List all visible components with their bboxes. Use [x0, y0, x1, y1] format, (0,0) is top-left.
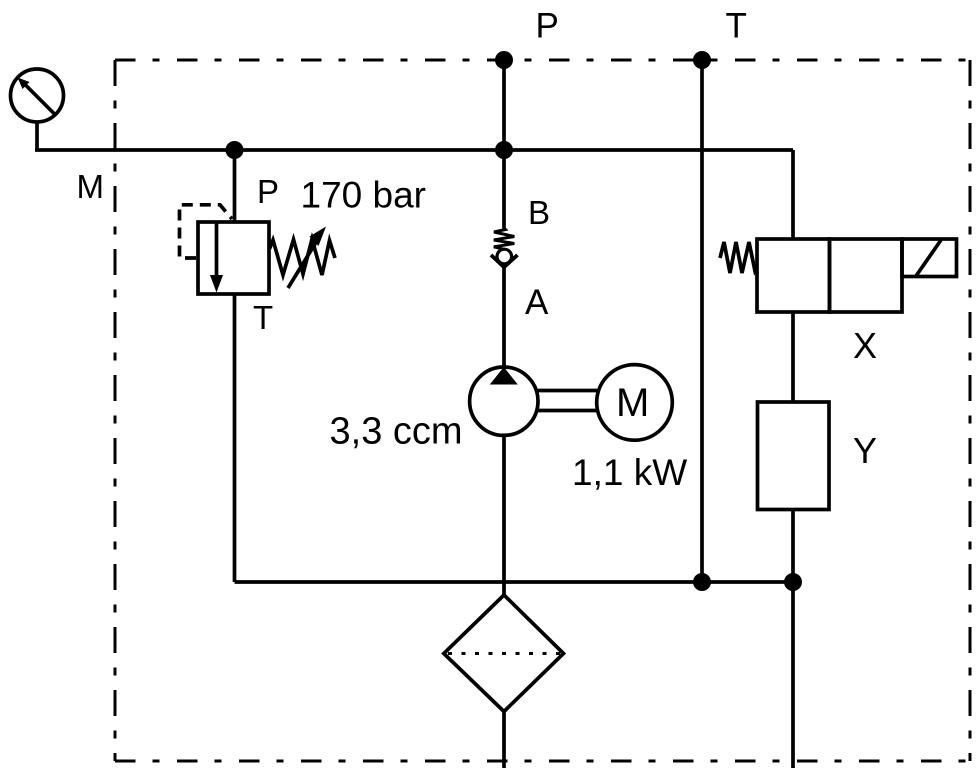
check valve ball [497, 249, 512, 264]
node relief branch [226, 141, 244, 159]
coupling shaft [538, 391, 597, 411]
svg-text:M: M [616, 381, 649, 425]
node P top [495, 51, 513, 69]
solenoid valve body right square [830, 239, 903, 312]
relief valve V1 body [198, 222, 269, 294]
wire main horizontal [35, 148, 793, 152]
svg-text:3,3 ccm: 3,3 ccm [330, 411, 463, 453]
motor M1 [597, 365, 673, 441]
wire pump to filter [502, 437, 506, 596]
enclosure border left [114, 60, 117, 761]
svg-text:M: M [77, 168, 105, 205]
node XY bottom [784, 573, 802, 591]
svg-text:T: T [726, 6, 747, 45]
wire P vertical [502, 60, 506, 229]
wire right drop to valve [791, 150, 795, 240]
wire gauge drop [35, 122, 39, 150]
wire relief branch lower [233, 294, 237, 582]
node T bottom [693, 573, 711, 591]
enclosure border top [115, 59, 970, 62]
relief valve V1 adjust arrow [288, 227, 326, 289]
svg-text:1,1 kW: 1,1 kW [572, 452, 687, 493]
svg-text:170 bar: 170 bar [301, 175, 427, 216]
wire filter to tank [502, 711, 506, 768]
wire relief branch upper [233, 150, 237, 222]
node P junction [495, 141, 513, 159]
relief valve V1 spring [270, 239, 336, 275]
relief valve V1 pilot dashed line [180, 205, 233, 258]
pump P1 [470, 367, 538, 435]
pressure gauge [11, 69, 64, 122]
filter F1 [444, 595, 564, 712]
enclosure border bottom [115, 760, 970, 763]
svg-text:P: P [257, 173, 279, 210]
svg-text:X: X [853, 325, 877, 366]
wire check valve to pump [502, 267, 506, 366]
check valve spring [494, 228, 515, 250]
wire valve to Y [791, 312, 795, 402]
enclosure border right [969, 60, 972, 761]
svg-text:Y: Y [853, 430, 877, 471]
relief valve V1 flow arrow [210, 222, 223, 293]
solenoid coil [902, 239, 957, 277]
solenoid valve spring [720, 242, 757, 273]
svg-text:A: A [525, 283, 549, 322]
svg-text:P: P [536, 6, 559, 45]
svg-text:B: B [528, 194, 550, 231]
wire bottom horizontal [235, 580, 794, 584]
solenoid valve body left square [757, 239, 830, 312]
check valve seat [491, 255, 518, 267]
node T top [693, 51, 711, 69]
svg-text:T: T [253, 299, 273, 336]
wire T vertical [700, 60, 704, 582]
orifice Y block [758, 402, 830, 510]
wire Y to bottom [791, 510, 795, 768]
